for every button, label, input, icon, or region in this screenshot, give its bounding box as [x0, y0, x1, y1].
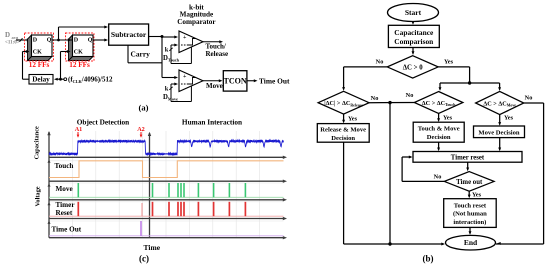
svg-text:End: End [464, 238, 478, 247]
svg-text:Timer: Timer [56, 201, 76, 209]
svg-text:Decision: Decision [331, 135, 355, 142]
svg-text:Touch & Move: Touch & Move [418, 125, 460, 132]
svg-text:D: D [33, 37, 38, 43]
svg-text:Human Interaction: Human Interaction [182, 118, 242, 127]
svg-text:Move: Move [206, 82, 223, 90]
svg-text:(Not human: (Not human [453, 211, 487, 218]
svg-text:Move Decision: Move Decision [478, 130, 520, 137]
svg-text:No: No [376, 59, 384, 66]
svg-text:A1: A1 [75, 126, 83, 133]
svg-text:(b): (b) [423, 254, 434, 264]
svg-text:Time: Time [144, 243, 161, 252]
svg-text:No: No [371, 95, 379, 102]
svg-text:k: k [165, 47, 169, 54]
svg-text:Time out: Time out [456, 179, 483, 186]
svg-text:Carry: Carry [131, 50, 151, 59]
svg-text:k: k [165, 86, 169, 93]
svg-text:TCON: TCON [224, 77, 247, 86]
svg-text:CK: CK [74, 50, 83, 56]
svg-text:No: No [406, 92, 414, 99]
svg-text:Q: Q [47, 37, 52, 43]
svg-text:Decision: Decision [427, 134, 451, 141]
svg-text:Release: Release [206, 50, 229, 58]
svg-text:Yes: Yes [504, 115, 514, 122]
svg-text:Capacitance: Capacitance [394, 28, 434, 37]
svg-text:CK: CK [33, 50, 42, 56]
svg-text:Capacitance: Capacitance [34, 126, 41, 159]
svg-text:Reset: Reset [56, 209, 73, 217]
svg-text:+: + [183, 35, 187, 41]
svg-text:No: No [525, 95, 533, 102]
svg-text:interaction): interaction) [453, 219, 486, 226]
svg-text:Move: Move [56, 185, 73, 193]
svg-text:+: + [183, 74, 187, 80]
svg-text:Object Detection: Object Detection [77, 118, 129, 127]
svg-text:No: No [434, 174, 442, 181]
svg-text:Touch: Touch [55, 162, 74, 170]
svg-text:12 FFs: 12 FFs [29, 61, 50, 69]
svg-text:Comparison: Comparison [394, 37, 433, 46]
svg-text:Yes: Yes [348, 116, 358, 123]
svg-text:D: D [74, 37, 79, 43]
svg-text:Time Out: Time Out [259, 77, 290, 86]
svg-text:Voltage: Voltage [34, 186, 41, 206]
svg-text:ΔC > 0: ΔC > 0 [403, 64, 423, 71]
svg-text:Yes: Yes [472, 192, 482, 199]
svg-text:Subtractor: Subtractor [111, 30, 147, 39]
svg-text:(a): (a) [139, 103, 149, 113]
svg-text:Delay: Delay [32, 76, 50, 84]
svg-text:Start: Start [405, 8, 422, 17]
svg-text:Touch reset: Touch reset [454, 202, 487, 209]
svg-text:<11:0>: <11:0> [5, 41, 20, 46]
svg-text:Timer reset: Timer reset [451, 155, 485, 162]
svg-text:Yes: Yes [443, 115, 453, 122]
svg-text:A2: A2 [137, 126, 145, 133]
svg-text:Comparator: Comparator [177, 18, 216, 26]
svg-text:(c): (c) [139, 254, 149, 264]
svg-text:avg: avg [12, 35, 20, 40]
svg-text:Yes: Yes [444, 59, 454, 66]
svg-text:D: D [5, 31, 10, 39]
svg-text:Time Out: Time Out [52, 226, 82, 234]
svg-text:12 FFs: 12 FFs [69, 61, 90, 69]
svg-text:Release & Move: Release & Move [320, 127, 366, 134]
svg-text:Q: Q [88, 37, 93, 43]
